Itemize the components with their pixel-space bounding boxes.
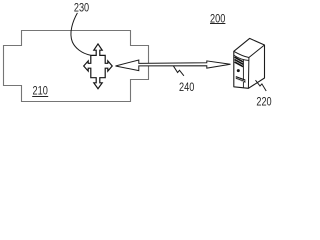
svg-text:210: 210: [33, 83, 48, 97]
computer tower: lid front-left edge: [234, 51, 249, 57]
leader 220 squiggle: [256, 80, 267, 91]
svg-text:220: 220: [256, 94, 271, 108]
4-way move arrow icon: [84, 44, 113, 89]
leader 240 squiggle: [173, 66, 184, 76]
computer tower 220: silhouette: [234, 38, 265, 88]
computer tower: bezel lip curve: [234, 55, 249, 60]
double-headed arrow 240: [116, 60, 231, 71]
computer tower: vent grill: [236, 76, 246, 83]
computer tower: power button: [237, 69, 240, 72]
module boundary 210: [4, 31, 149, 102]
svg-text:230: 230: [74, 1, 89, 15]
computer tower: bezel inner line: [242, 60, 244, 88]
svg-text:240: 240: [179, 80, 194, 94]
computer tower: drive bays: [235, 57, 244, 66]
computer tower: lid front-right edge: [248, 45, 264, 88]
leader 230: [71, 13, 91, 55]
